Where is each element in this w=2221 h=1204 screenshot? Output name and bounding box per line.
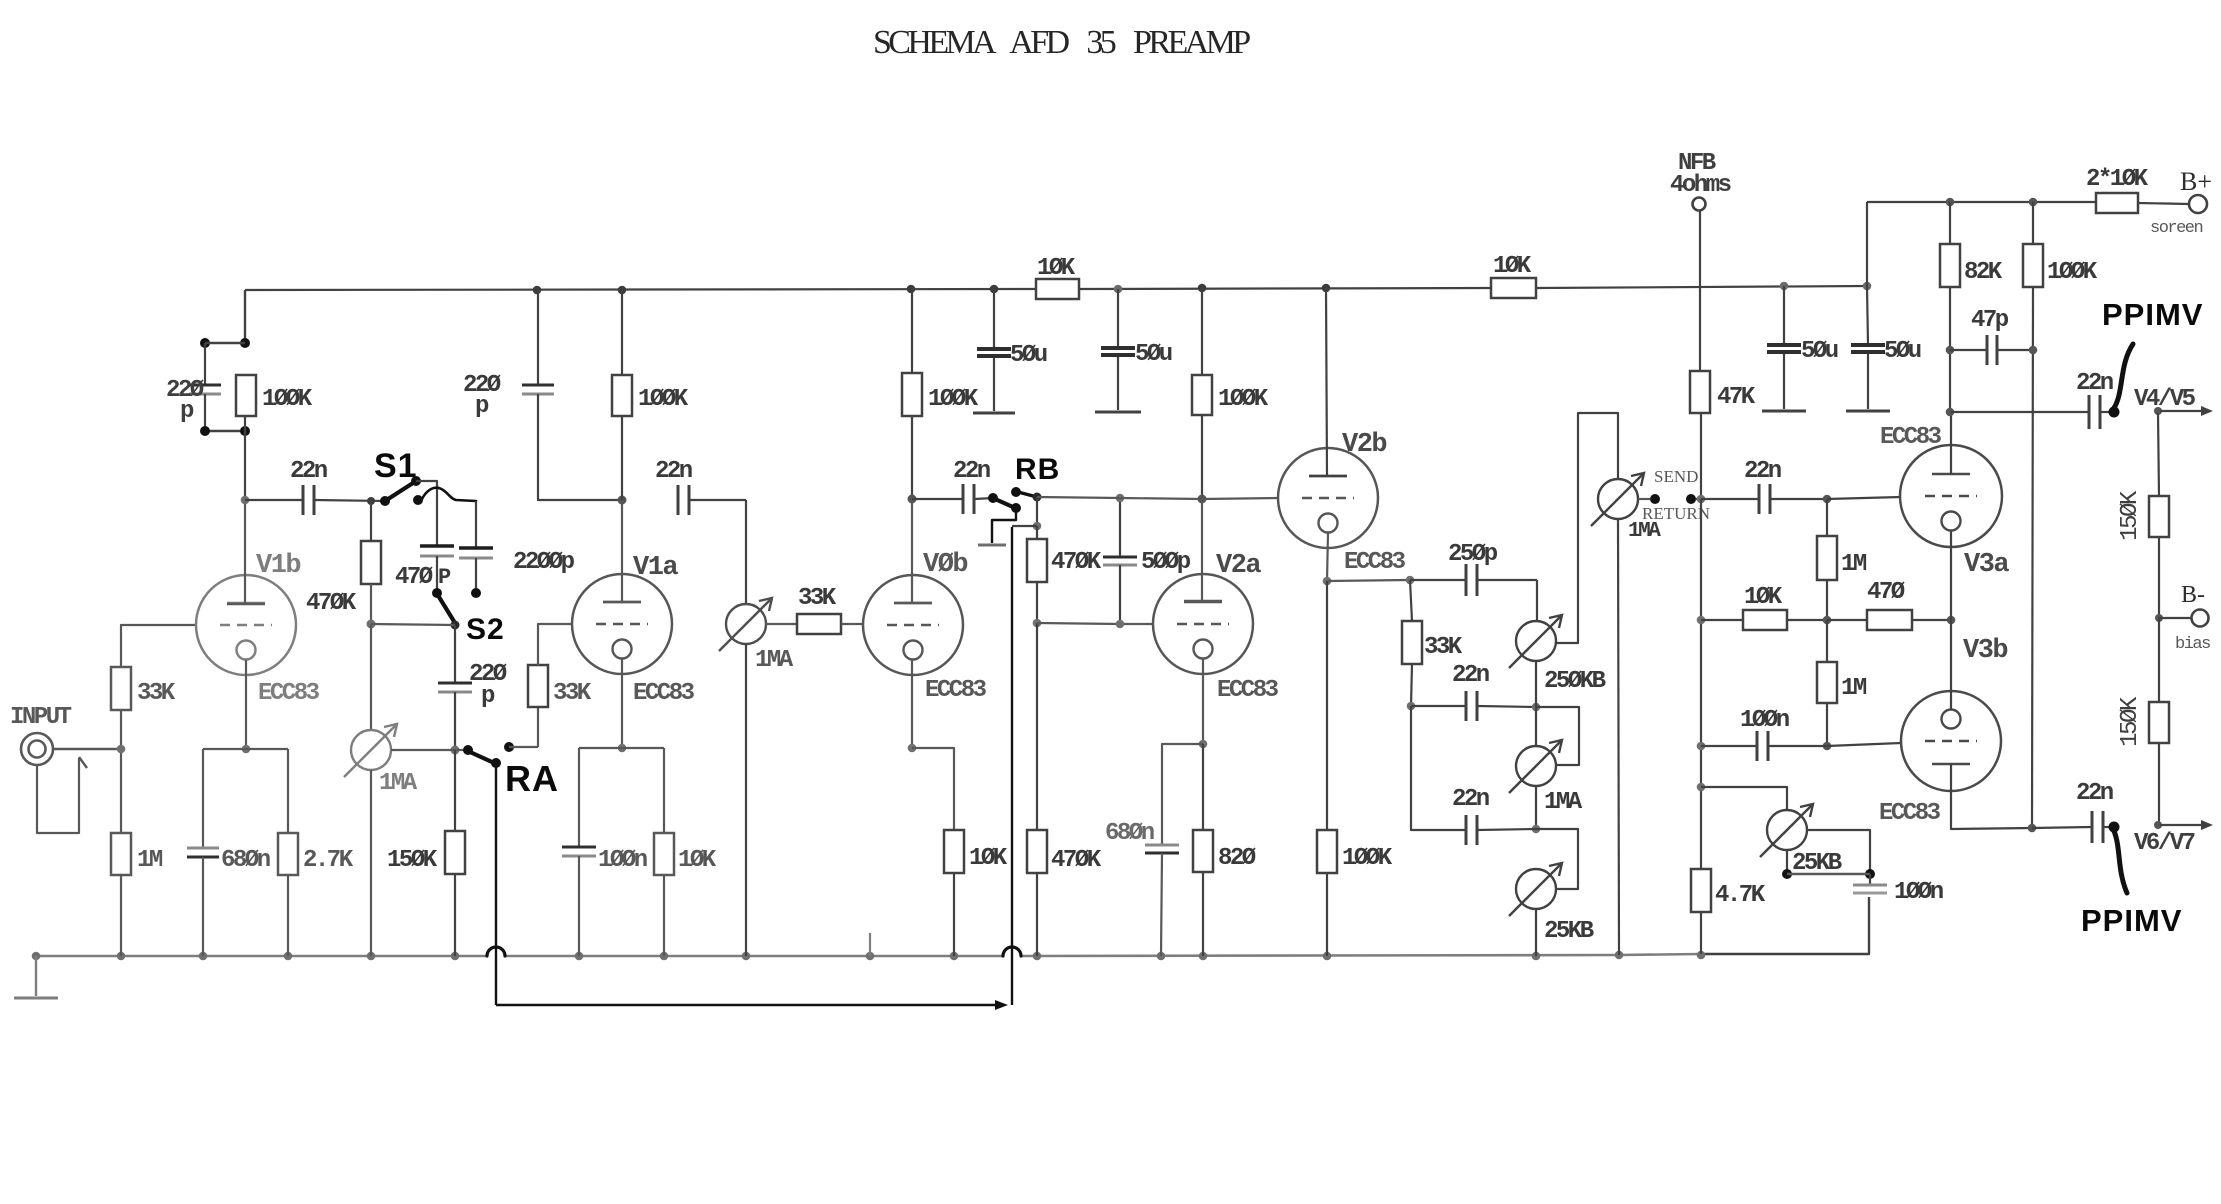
svg-text:4ohms: 4ohms (1670, 172, 1731, 199)
resistor 100K plate V1a (621, 290, 623, 375)
wire plate lead V2b (1326, 288, 1327, 476)
node bus-1M (117, 952, 126, 961)
svg-text:V3b: V3b (1963, 636, 2007, 666)
wire send pot to bus (1618, 519, 1619, 955)
svg-text:ECC83: ECC83 (1217, 677, 1279, 704)
wire mid to bass pot (1535, 786, 1537, 829)
node RB-low (1011, 503, 1021, 513)
node bus-100n1 (575, 952, 584, 961)
svg-text:1M: 1M (137, 847, 163, 874)
svg-text:RA: RA (505, 758, 559, 799)
connector NFB terminal (1693, 198, 1706, 211)
svg-text:ECC83: ECC83 (925, 677, 987, 704)
resistor 100K cathode V2b (1326, 581, 1328, 830)
wire 150K branch (454, 750, 456, 831)
wire RB wire to V2a grid (1037, 623, 1120, 624)
wire cathode pair V1a (579, 747, 664, 749)
node S1-up (411, 476, 421, 486)
wire return riser (1011, 527, 1013, 1005)
svg-text:22n: 22n (1744, 458, 1781, 485)
svg-text:5Øu: 5Øu (1884, 338, 1921, 365)
node V6V7 (2154, 821, 2162, 829)
wire pot to bus (370, 770, 372, 956)
node RA-pivot (491, 758, 501, 768)
node V2a-grid-junction (1033, 619, 1042, 628)
svg-text:1ØK: 1ØK (678, 847, 717, 874)
wire V1a grid (538, 624, 572, 665)
svg-text:33K: 33K (553, 680, 592, 707)
wire V6/V7 arrow (2160, 824, 2204, 826)
wire 470p to S2 (436, 556, 438, 593)
resistor 150K upper (2149, 496, 2169, 537)
wire cathode pair top (203, 748, 288, 750)
node rail-100K5 (1198, 284, 1207, 293)
wire bass tap loop (1536, 829, 1578, 889)
potentiometer 25KB presence (1767, 810, 1807, 850)
svg-text:INPUT: INPUT (10, 704, 72, 731)
capacitor 2200p (459, 546, 493, 550)
node V1b-cathode (242, 745, 251, 754)
capacitor 47p (1950, 349, 1987, 351)
svg-text:1ØØn: 1ØØn (1740, 707, 1789, 734)
node cathode-join (1947, 616, 1956, 625)
resistor 1M upper (1826, 499, 1828, 536)
resistor 10K cathode V0b (944, 830, 964, 873)
svg-text:p: p (180, 398, 194, 425)
svg-text:82Ø: 82Ø (1218, 845, 1256, 872)
wire junction to RA contact (455, 749, 468, 751)
resistor 33K horizontal (766, 623, 797, 625)
wire RB to V2b grid (1037, 497, 1120, 498)
capacitor 22n V4/V5 (2088, 395, 2091, 429)
wire presence feed (1701, 787, 1787, 810)
resistor 82K (1949, 202, 1951, 244)
wire 2200p down (475, 558, 477, 593)
svg-text:ECC83: ECC83 (258, 680, 320, 707)
capacitor 50u second (1117, 289, 1119, 348)
switch S2 arm (439, 597, 455, 623)
capacitor 22n coupling V1a (677, 485, 680, 515)
svg-text:B+: B+ (2180, 167, 2212, 196)
switch PPIMV bottom wire (2114, 831, 2127, 893)
node V2a-plate (1198, 495, 1207, 504)
node bus-10Ka (660, 952, 669, 961)
wire plate lead V2a (1201, 499, 1203, 601)
svg-text:RB: RB (1015, 453, 1060, 486)
wire jack to grid node (53, 748, 121, 750)
ground RB (978, 544, 1006, 547)
svg-text:RETURN: RETURN (1642, 504, 1710, 523)
node RA-junction (451, 746, 460, 755)
wire 470K to pot (370, 624, 372, 730)
wire V3a plate to 22n (1951, 411, 2089, 413)
wire rail corner (1866, 202, 1868, 286)
svg-text:PPIMV: PPIMV (2102, 297, 2203, 332)
resistor 150K (445, 831, 465, 874)
switch RB arm (995, 499, 1013, 507)
node 1M-100n (1823, 742, 1832, 751)
node V1b-plate-coupling (241, 496, 250, 505)
wire pot2 to bus (745, 644, 747, 956)
wire V3a grid line (1827, 497, 1901, 499)
svg-text:V1a: V1a (633, 553, 678, 583)
svg-text:15ØK: 15ØK (2117, 696, 2144, 747)
node rail-50u3 (1780, 282, 1789, 291)
svg-text:1ØK: 1ØK (1037, 255, 1076, 282)
svg-text:22n: 22n (655, 458, 692, 485)
wire V2a cathode (1202, 659, 1204, 744)
node V3a-grid (1823, 495, 1832, 504)
svg-text:22n: 22n (1452, 786, 1489, 813)
node V2b-cathode (1323, 577, 1332, 586)
wire to pot 1MA-2 (745, 500, 747, 604)
wire presence link (1787, 873, 1870, 876)
wire 33K to 1M (120, 710, 122, 833)
svg-text:1ØK: 1ØK (969, 845, 1008, 872)
svg-text:15ØK: 15ØK (387, 847, 438, 874)
node presence-a (1782, 869, 1792, 879)
wire pot wiper to RA (391, 749, 455, 751)
node V0b-cathode (908, 744, 917, 753)
resistor 470K V2a grid (1036, 526, 1038, 539)
ground main (35, 956, 37, 996)
wire hop RA over bus (487, 947, 505, 956)
node 82K-47p (1946, 346, 1955, 355)
svg-text:soreen: soreen (2150, 219, 2203, 238)
capacitor 100n V3b grid (1701, 745, 1757, 747)
svg-text:2*1ØK: 2*1ØK (2086, 166, 2149, 193)
node V1a-cathode (618, 744, 627, 753)
wire ground bus to 100n2 (1702, 897, 1869, 954)
svg-text:1ØØK: 1ØØK (638, 386, 689, 413)
wire send stub (1638, 498, 1650, 500)
node RB-470K (1033, 522, 1042, 531)
node bus-820 (1199, 952, 1208, 961)
svg-text:1ØØn: 1ØØn (1894, 879, 1943, 906)
svg-text:1ØØK: 1ØØK (262, 386, 313, 413)
node bus-10K3 (950, 952, 959, 961)
svg-text:VØb: VØb (923, 550, 967, 580)
tube V1a ECC83 (572, 574, 672, 674)
svg-text:5Øu: 5Øu (1010, 342, 1047, 369)
wire RA to bottom loop (495, 765, 497, 1005)
wire to 22n V6/V7 (2032, 827, 2092, 828)
node 500p-top (1116, 494, 1125, 503)
svg-text:47Ø: 47Ø (395, 564, 433, 591)
svg-text:25ØKB: 25ØKB (1544, 668, 1606, 695)
svg-text:47K: 47K (1717, 384, 1756, 411)
resistor 470K grid leak (1027, 830, 1047, 873)
node pair-top-left (200, 338, 210, 348)
wire pair top (205, 342, 245, 344)
wire cathode bus V2b (1327, 580, 1410, 581)
svg-text:1MA: 1MA (379, 770, 418, 797)
resistor 10K rail first (1036, 279, 1079, 299)
svg-text:1MA: 1MA (1628, 520, 1661, 543)
wire treble to mid pot (1535, 661, 1537, 746)
svg-text:33K: 33K (1424, 634, 1463, 661)
node S1-low (413, 495, 423, 505)
potentiometer 25KB bass (1516, 869, 1556, 909)
wire 2.7K to bus (287, 875, 289, 956)
svg-text:ECC83: ECC83 (1879, 800, 1941, 827)
svg-text:47ØK: 47ØK (306, 590, 357, 617)
svg-text:1ØØK: 1ØØK (928, 386, 979, 413)
wire plate lead V0b (911, 499, 913, 603)
node RA-right (504, 742, 514, 752)
capacitor 470p (420, 544, 454, 548)
svg-text:68Øn: 68Øn (1105, 820, 1154, 847)
resistor 1M (111, 833, 131, 875)
svg-text:p: p (481, 683, 495, 710)
tube V3a ECC83 (1900, 445, 2002, 547)
node presence-b (1865, 869, 1875, 879)
node bus-2.7K (284, 952, 293, 961)
node screen-82K (1946, 198, 1955, 207)
wire V2b cathode (1327, 533, 1328, 581)
svg-text:25KB: 25KB (1544, 918, 1594, 945)
node RETURN (1686, 494, 1696, 504)
svg-text:V2a: V2a (1216, 551, 1261, 581)
capacitor 100n V1a (562, 846, 596, 849)
node bus-gnd-in (32, 952, 41, 961)
node bass-top (1532, 825, 1541, 834)
capacitor 500p (1119, 498, 1121, 557)
wire V1a cathode (621, 659, 623, 748)
connector B+ screen (2189, 195, 2207, 213)
capacitor 50u fourth (1867, 286, 1868, 345)
node S2-pivot (451, 621, 460, 630)
node bus-470K1 (367, 952, 376, 961)
resistor 47K (1690, 371, 1710, 413)
switch RA arm (470, 752, 492, 762)
node SEND (1650, 494, 1660, 504)
node pair-bot-right (240, 426, 250, 436)
node treble-bottom (1532, 703, 1541, 712)
capacitor 22n mid (1411, 705, 1466, 707)
node V4V5 (2154, 407, 2162, 415)
wire presence bottom (1786, 850, 1788, 874)
capacitor 680n (187, 847, 219, 850)
svg-text:1ØK: 1ØK (1493, 253, 1532, 280)
wire 1M to bus (120, 875, 122, 956)
svg-text:1MA: 1MA (1544, 789, 1583, 816)
node S1-pivot (380, 496, 390, 506)
wire S1 upper to 470p (416, 481, 437, 546)
capacitor 100n presence (1869, 874, 1871, 885)
tube V0b ECC83 (863, 575, 963, 675)
resistor 33K grid V1a (537, 707, 539, 747)
resistor 2x10K (2096, 193, 2138, 213)
capacitor 680n V2a (1145, 844, 1179, 847)
wire plate lead V1b (244, 416, 246, 431)
resistor 1M lower (1826, 620, 1828, 662)
resistor 4.7K (1691, 869, 1711, 912)
svg-text:bias: bias (2175, 635, 2210, 654)
svg-text:1ØØn: 1ØØn (598, 847, 647, 874)
wire B+ rail (245, 289, 1036, 290)
capacitor 250p (1410, 579, 1466, 581)
node rail-50u1 (990, 285, 999, 294)
node screen-100K (2029, 198, 2038, 207)
wire input shield (37, 758, 79, 833)
node riser-10K (1697, 616, 1706, 625)
node RB-up (1011, 487, 1021, 497)
svg-text:1M: 1M (1841, 551, 1867, 578)
node RB-out (1033, 493, 1042, 502)
node bus-stub (866, 952, 875, 961)
svg-text:V6/V7: V6/V7 (2134, 830, 2195, 857)
capacitor 22n V6/V7 (2091, 811, 2094, 843)
svg-text:22n: 22n (2076, 370, 2113, 397)
node bus-25KBt (1532, 952, 1541, 961)
potentiometer 1MA send (1598, 479, 1638, 519)
svg-text:22n: 22n (290, 458, 327, 485)
wire pair bottom (204, 394, 206, 431)
wire B- stub (2159, 617, 2191, 619)
node V2a-cathode (1199, 740, 1208, 749)
node V0b-plate (908, 495, 917, 504)
node tone-in (1406, 576, 1415, 585)
node rail-V2b (1322, 284, 1331, 293)
wire V3a cathode (1950, 531, 1952, 620)
svg-text:1ØØK: 1ØØK (1342, 845, 1393, 872)
svg-text:PPIMV: PPIMV (2081, 903, 2182, 938)
capacitor 22n V3a in (1701, 498, 1759, 500)
svg-text:V1b: V1b (256, 551, 300, 581)
node PPIMV-top (2109, 407, 2120, 418)
svg-text:V4/V5: V4/V5 (2134, 386, 2196, 413)
wire RB upper to junction (1018, 492, 1037, 497)
wire cathode to 10K (912, 748, 954, 830)
wire ground bus (36, 955, 487, 958)
node RB-left (988, 493, 998, 503)
svg-text:47p: 47p (1971, 307, 2009, 334)
potentiometer 1MA mix (726, 604, 766, 644)
potentiometer 250KB treble (1516, 621, 1556, 661)
wire V0b cathode (911, 660, 913, 748)
svg-text:47ØK: 47ØK (1051, 847, 1102, 874)
wire 220p to grid junction (538, 394, 622, 500)
svg-text:SCHEMA AFD 35 PREAMP: SCHEMA AFD 35 PREAMP (873, 24, 1250, 61)
wire V3a plate lead (1950, 412, 1952, 474)
wire plate lead V1a (621, 500, 623, 602)
wire RB ground stub (992, 510, 1016, 543)
tube V2a ECC83 (1153, 574, 1253, 674)
resistor 10K cathode V1a (654, 833, 674, 875)
node rail-50u4 (1863, 282, 1872, 291)
node rail-50u2 (1114, 285, 1123, 294)
node input-grid (117, 745, 126, 754)
wire shield arrow tick (79, 757, 87, 768)
node B-minus (2155, 614, 2163, 622)
svg-text:S1: S1 (374, 447, 418, 485)
node bus-680n (199, 952, 208, 961)
resistor 820 (1202, 744, 1204, 830)
svg-text:V3a: V3a (1964, 550, 2009, 580)
svg-text:5Øu: 5Øu (1801, 338, 1838, 365)
node bus-pot2 (742, 952, 751, 961)
node bus-470K3 (1033, 952, 1042, 961)
wire screen rail (1867, 201, 2096, 203)
svg-text:22n: 22n (2076, 780, 2113, 807)
node V3a-plate-node (1946, 408, 1955, 417)
wire cathode to 680n (1162, 744, 1203, 845)
node tone-mid (1407, 702, 1416, 711)
node 500p-bottom (1116, 620, 1125, 629)
wire rail to plate pair (244, 290, 246, 343)
svg-text:SEND: SEND (1654, 467, 1698, 486)
svg-text:p: p (475, 393, 489, 420)
resistor 33K grid V1b (111, 667, 131, 710)
potentiometer 1MA (351, 730, 391, 770)
wire hop RETURN over bus (1003, 947, 1021, 956)
wire treble tap loop (1556, 413, 1618, 643)
wire to 150K upper (2158, 413, 2159, 496)
node V1a-grid-plate (618, 496, 627, 505)
node rail-220p2 (533, 286, 542, 295)
wire NFB down (1699, 211, 1701, 371)
resistor 10K feedback (1701, 619, 1743, 621)
resistor 470K (370, 501, 372, 541)
capacitor 50u third (1783, 286, 1785, 345)
svg-text:82K: 82K (1964, 259, 2003, 286)
node 470K-tap (367, 497, 375, 505)
svg-text:ECC83: ECC83 (1344, 549, 1406, 576)
resistor 470 (1827, 619, 1867, 621)
capacitor 50u first (993, 289, 995, 349)
wire V4/V5 arrow (2160, 410, 2204, 412)
node bus-send-pot (1615, 951, 1624, 960)
wire stub above bus (869, 933, 871, 956)
svg-text:15ØK: 15ØK (2117, 490, 2144, 541)
node riser-25KB (1697, 783, 1706, 792)
wire junction to S2 (371, 624, 455, 625)
wire send pot feed (1617, 478, 1619, 480)
svg-text:68Øn: 68Øn (221, 847, 270, 874)
svg-text:33K: 33K (798, 585, 837, 612)
node S2-b (471, 588, 481, 598)
wire V3b plate lead (1951, 764, 2032, 829)
resistor 33K tone (1410, 580, 1412, 621)
svg-text:5Øu: 5Øu (1135, 341, 1172, 368)
wire presence tap (1807, 830, 1870, 874)
node bus-150K (451, 952, 460, 961)
node S2-a (432, 588, 442, 598)
svg-text:47ØK: 47ØK (1051, 549, 1102, 576)
node grid-junction V1a (367, 620, 376, 629)
potentiometer 1MA mid (1516, 746, 1556, 786)
wire bass to bus (1535, 909, 1537, 956)
resistor 100K plate V2a (1201, 288, 1203, 375)
svg-text:22n: 22n (1452, 662, 1489, 689)
wire return to riser (1696, 498, 1701, 500)
node 100K-47p (2029, 346, 2038, 355)
node V3b-plate-node (2028, 824, 2037, 833)
node pair-top-right (240, 338, 250, 348)
svg-text:B-: B- (2181, 582, 2205, 608)
wire S1 lower hop to 2200p (421, 488, 476, 501)
node rail-100K2 (618, 286, 627, 295)
resistor 100K plate V0b (911, 289, 913, 373)
node bus-680n2 (1157, 952, 1166, 961)
switch S1 arm (385, 483, 413, 501)
svg-text:1ØK: 1ØK (1744, 584, 1783, 611)
capacitor 22n coupling V1b (245, 499, 303, 501)
wire bottom loop horizontal (496, 1004, 997, 1006)
wire jog to return riser (1012, 525, 1037, 527)
svg-text:1ØØK: 1ØØK (2047, 259, 2098, 286)
